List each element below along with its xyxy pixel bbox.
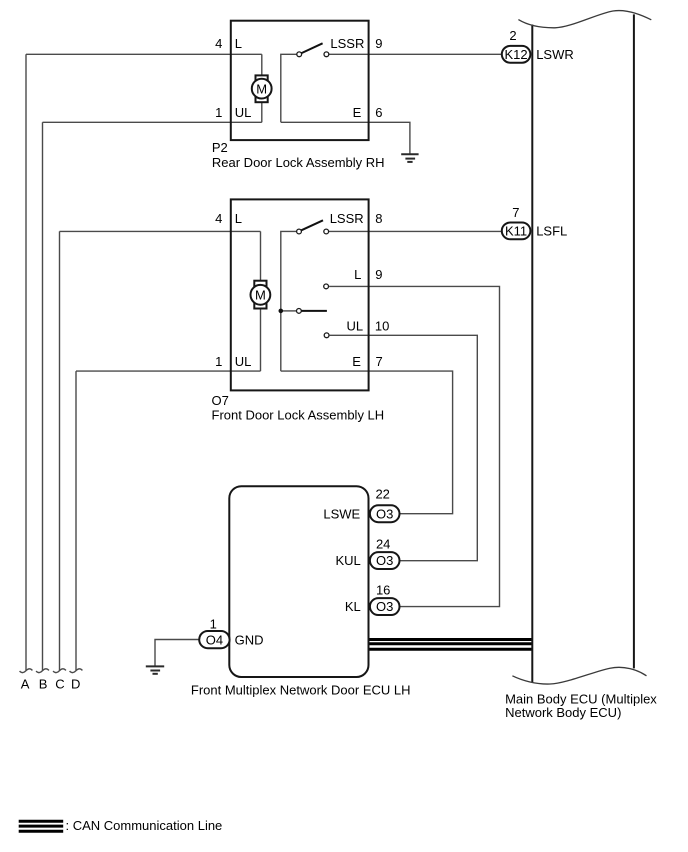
svg-text:16: 16 — [376, 582, 390, 597]
svg-text:22: 22 — [375, 487, 389, 502]
svg-text:O4: O4 — [206, 632, 223, 647]
svg-text:C: C — [55, 677, 64, 692]
svg-text:Rear Door Lock Assembly RH: Rear Door Lock Assembly RH — [212, 155, 385, 170]
svg-text:O3: O3 — [376, 506, 393, 521]
svg-text:UL: UL — [346, 319, 363, 334]
svg-text:1: 1 — [210, 617, 217, 632]
svg-text:: CAN Communication Line: : CAN Communication Line — [66, 818, 223, 833]
svg-text:4: 4 — [215, 211, 222, 226]
svg-text:KL: KL — [345, 599, 361, 614]
svg-text:GND: GND — [235, 632, 264, 647]
svg-text:24: 24 — [376, 537, 390, 552]
svg-text:K11: K11 — [505, 224, 527, 239]
svg-text:Front Multiplex Network Door E: Front Multiplex Network Door ECU LH — [191, 683, 411, 698]
svg-text:M: M — [256, 81, 267, 96]
svg-text:9: 9 — [375, 267, 382, 282]
svg-text:7: 7 — [512, 205, 519, 220]
svg-text:D: D — [71, 677, 80, 692]
svg-text:6: 6 — [375, 105, 382, 120]
svg-text:8: 8 — [375, 211, 382, 226]
svg-text:UL: UL — [235, 354, 252, 369]
svg-text:4: 4 — [215, 36, 222, 51]
svg-text:L: L — [235, 211, 242, 226]
svg-text:LSFL: LSFL — [536, 224, 567, 239]
svg-text:LSWE: LSWE — [323, 506, 360, 521]
svg-text:L: L — [354, 267, 361, 282]
svg-text:E: E — [352, 354, 361, 369]
svg-text:P2: P2 — [212, 140, 228, 155]
svg-text:UL: UL — [235, 105, 252, 120]
svg-text:O3: O3 — [376, 553, 393, 568]
svg-text:1: 1 — [215, 105, 222, 120]
svg-text:K12: K12 — [505, 47, 528, 62]
svg-text:LSWR: LSWR — [536, 47, 574, 62]
svg-text:M: M — [255, 288, 266, 303]
svg-text:9: 9 — [375, 36, 382, 51]
svg-text:O7: O7 — [212, 393, 229, 408]
svg-text:L: L — [235, 36, 242, 51]
svg-text:O3: O3 — [376, 599, 393, 614]
svg-text:Network Body ECU): Network Body ECU) — [505, 705, 621, 720]
svg-text:10: 10 — [375, 319, 389, 334]
svg-text:KUL: KUL — [336, 553, 361, 568]
svg-text:Front Door Lock Assembly LH: Front Door Lock Assembly LH — [212, 408, 385, 423]
svg-text:LSSR: LSSR — [330, 211, 364, 226]
svg-text:E: E — [353, 105, 362, 120]
svg-text:LSSR: LSSR — [330, 36, 364, 51]
svg-text:2: 2 — [509, 28, 516, 43]
svg-text:7: 7 — [376, 354, 383, 369]
svg-text:1: 1 — [215, 354, 222, 369]
svg-text:A: A — [21, 677, 30, 692]
svg-text:B: B — [39, 677, 48, 692]
